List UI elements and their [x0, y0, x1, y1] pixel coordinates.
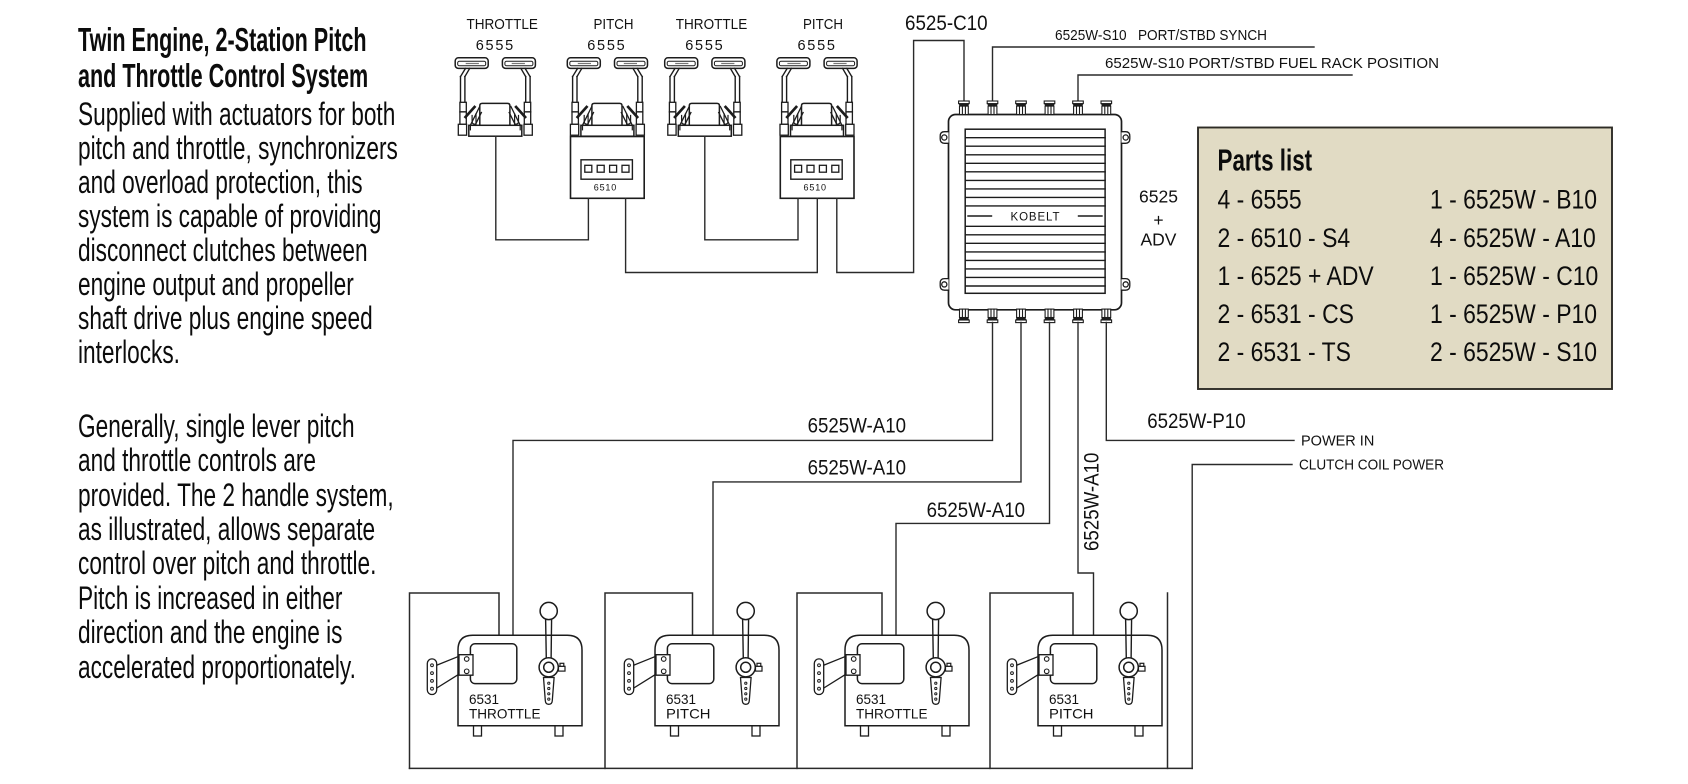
6525 bottom connector 5 — [1073, 309, 1084, 323]
svg-text:6525: 6525 — [1139, 187, 1178, 207]
svg-text:6555: 6555 — [685, 38, 723, 54]
svg-text:6525W-A10: 6525W-A10 — [808, 414, 906, 437]
6525 bottom connector 2 — [987, 309, 998, 323]
6525 top connector 5 — [1073, 101, 1084, 115]
label 6525W-A10 #3 — [927, 499, 1025, 522]
parts row 2 - 6510 - S4 — [1218, 223, 1351, 253]
svg-text:6525-C10: 6525-C10 — [905, 12, 988, 35]
wire station1 to 6510#1 — [496, 137, 589, 240]
console box 3 outline — [797, 593, 882, 768]
parts row 4 - 6525W - A10 — [1430, 223, 1596, 253]
svg-text:POWER IN: POWER IN — [1301, 433, 1374, 449]
svg-text:PITCH: PITCH — [803, 17, 843, 33]
svg-text:6531: 6531 — [856, 692, 886, 707]
wire CLUTCH COIL POWER — [1192, 465, 1292, 769]
synchronizer box 6510 #2 — [780, 137, 854, 199]
svg-text:ADV: ADV — [1141, 230, 1177, 250]
parts row 2 - 6531 - TS — [1218, 337, 1351, 367]
6525 top connector 1 — [959, 101, 970, 115]
control box 6525 fins — [965, 138, 1105, 286]
parts row 4 - 6555 — [1218, 185, 1302, 215]
wire 6525 connector5 to FUEL RACK POSITION — [1078, 75, 1352, 101]
parts row 1 - 6525W - P10 — [1430, 299, 1597, 329]
wire 6525 connector2 to PORT/STBD SYNCH — [993, 47, 1315, 100]
svg-text:PITCH: PITCH — [594, 17, 634, 33]
svg-text:4 - 6555: 4 - 6555 — [1218, 185, 1302, 215]
svg-text:2 - 6531 - TS: 2 - 6531 - TS — [1218, 337, 1351, 367]
wire 6525 to actuator 3 (bus 6525W-A10 #3) — [896, 322, 1050, 635]
svg-text:1 - 6525W - B10: 1 - 6525W - B10 — [1430, 185, 1597, 215]
svg-text:6555: 6555 — [797, 38, 835, 54]
wire 6525 to actuator 4 (vertical 6525W-A10) — [1078, 322, 1094, 635]
parts list title — [1218, 143, 1313, 177]
6525 bottom connector 6 — [1101, 309, 1112, 323]
parts row 1 - 6525W - B10 — [1430, 185, 1597, 215]
svg-text:CLUTCH COIL POWER: CLUTCH COIL POWER — [1299, 458, 1444, 474]
svg-text:2 - 6525W - S10: 2 - 6525W - S10 — [1430, 337, 1597, 367]
6525 top connector 2 — [987, 101, 998, 115]
console box 4 right edge — [1167, 593, 1169, 768]
console box 1 outline — [410, 593, 500, 768]
console box 4 outline — [990, 593, 1073, 768]
6525 bottom connector 4 — [1044, 309, 1055, 323]
svg-text:6525W-A10: 6525W-A10 — [808, 457, 906, 480]
station 4 PITCH 6555 — [777, 58, 857, 136]
svg-text:6510: 6510 — [804, 182, 827, 192]
svg-text:4 - 6525W - A10: 4 - 6525W - A10 — [1430, 223, 1596, 253]
station 2 PITCH 6555 — [567, 58, 647, 136]
parts row 2 - 6525W - S10 — [1430, 337, 1597, 367]
parts row 2 - 6531 - CS — [1218, 299, 1354, 329]
actuator 3 (6531 THROTTLE) — [814, 602, 969, 736]
console box 2 outline — [605, 593, 693, 768]
wire 6510#2 to 6525 connector 1 (6525-C10) — [837, 41, 964, 273]
svg-text:2 - 6531 - CS: 2 - 6531 - CS — [1218, 299, 1354, 329]
svg-text:1 - 6525W - P10: 1 - 6525W - P10 — [1430, 299, 1597, 329]
6525 bottom connector 3 — [1016, 309, 1027, 323]
6525 bottom connector 1 — [959, 309, 970, 323]
actuator 2 (6531 PITCH) — [624, 602, 779, 736]
label 6525W-A10 #1 — [808, 414, 906, 437]
control box 6525 corner screws — [940, 132, 1130, 291]
svg-text:THROTTLE: THROTTLE — [466, 17, 538, 33]
6525 top connector 3 — [1016, 101, 1027, 115]
svg-text:+: + — [1153, 210, 1163, 230]
left descriptive text block — [78, 97, 537, 370]
actuator 4 (6531 PITCH) — [1007, 602, 1162, 736]
svg-text:6531: 6531 — [666, 692, 696, 707]
wire 6525 to actuator 1 (bus 6525W-A10 #1) — [513, 322, 993, 635]
svg-text:PITCH: PITCH — [666, 707, 711, 722]
svg-text:6531: 6531 — [1049, 692, 1079, 707]
svg-text:6510: 6510 — [594, 182, 617, 192]
left heading text — [78, 22, 522, 93]
control box 6525 — [949, 115, 1122, 310]
wire station3 to 6510#2 — [705, 137, 798, 240]
svg-text:6525W-S10 PORT/STBD SYNCH: 6525W-S10 PORT/STBD SYNCH — [1055, 28, 1267, 44]
svg-text:6555: 6555 — [587, 38, 625, 54]
wire 6525 to actuator 2 (bus 6525W-A10 #2) — [713, 322, 1021, 635]
label 6525W-P10 — [1147, 410, 1245, 433]
svg-text:KOBELT: KOBELT — [1011, 211, 1060, 223]
label 6525W-A10 #2 — [808, 457, 906, 480]
svg-text:6525W-A10: 6525W-A10 — [927, 499, 1025, 522]
svg-text:6525W-P10: 6525W-P10 — [1147, 410, 1245, 433]
station 3 THROTTLE 6555 — [665, 58, 745, 136]
svg-text:Parts list: Parts list — [1218, 143, 1313, 177]
svg-text:1 - 6525W - C10: 1 - 6525W - C10 — [1430, 261, 1598, 291]
6525 top connector 4 — [1044, 101, 1055, 115]
station 1 THROTTLE 6555 — [455, 58, 535, 136]
svg-text:6555: 6555 — [476, 38, 514, 54]
svg-text:2 - 6510 - S4: 2 - 6510 - S4 — [1218, 223, 1351, 253]
wire 6510#1 to 6510#2 — [626, 198, 818, 272]
actuator 1 (6531 THROTTLE) — [427, 602, 582, 736]
wire 6525 to POWER IN (6525W-P10) — [1106, 322, 1294, 440]
parts row 1 - 6525W - C10 — [1430, 261, 1598, 291]
left descriptive text block 2 — [78, 409, 531, 684]
6525 top connector 6 — [1101, 101, 1112, 115]
svg-text:6525W-S10 PORT/STBD FUEL RACK: 6525W-S10 PORT/STBD FUEL RACK POSITION — [1105, 56, 1439, 72]
svg-text:THROTTLE: THROTTLE — [676, 17, 748, 33]
console bottom line — [410, 767, 1193, 769]
label 6525-C10 — [905, 12, 988, 35]
svg-text:6525W-A10: 6525W-A10 — [1080, 453, 1103, 551]
svg-text:THROTTLE: THROTTLE — [856, 707, 928, 722]
parts list box — [1198, 128, 1612, 390]
svg-text:6531: 6531 — [469, 692, 499, 707]
synchronizer box 6510 #1 — [571, 137, 645, 199]
svg-text:PITCH: PITCH — [1049, 707, 1094, 722]
svg-text:1 - 6525 + ADV: 1 - 6525 + ADV — [1218, 261, 1374, 291]
svg-text:THROTTLE: THROTTLE — [469, 707, 541, 722]
parts row 1 - 6525 + ADV — [1218, 261, 1374, 291]
